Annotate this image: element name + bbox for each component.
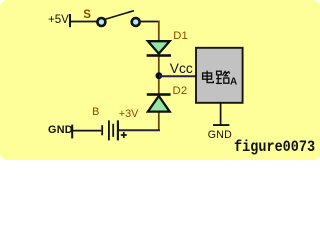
- svg-text:A: A: [230, 76, 237, 87]
